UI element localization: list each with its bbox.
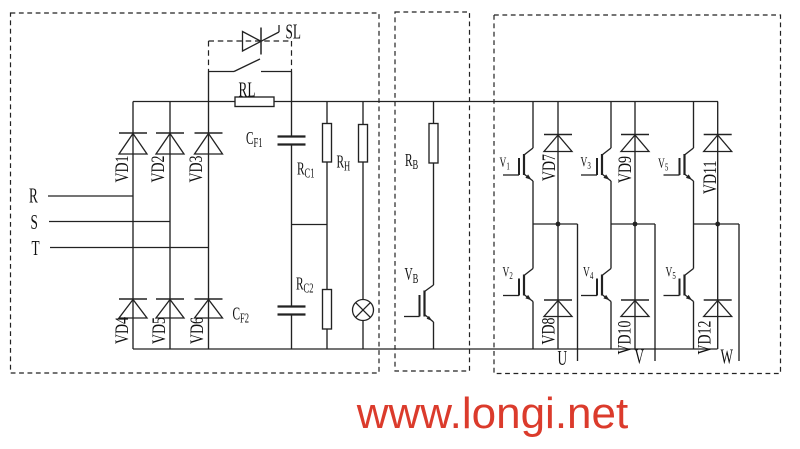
label V <box>635 344 645 368</box>
wire lamp bottom lead <box>362 321 364 350</box>
watermark www.longi.net <box>356 389 628 438</box>
label VD11 <box>699 161 720 194</box>
svg-text:VD1: VD1 <box>111 156 132 183</box>
resistor RC2 <box>323 290 332 330</box>
svg-text:RL: RL <box>239 77 256 101</box>
thyristor SL <box>243 25 280 55</box>
label S <box>31 210 38 234</box>
node phase junction U <box>556 222 561 227</box>
label V5 (lower) <box>666 263 677 281</box>
label V4 (lower) <box>583 263 594 281</box>
wire output phase W <box>738 224 740 361</box>
label VD6 <box>186 317 207 344</box>
svg-text:V3: V3 <box>581 153 592 171</box>
diode VD5 <box>156 299 184 318</box>
diode VD6 <box>195 299 223 318</box>
wire V5 collector from phase rail <box>693 224 695 269</box>
svg-text:V2: V2 <box>503 263 514 281</box>
resistor RL <box>235 97 274 107</box>
wire input R <box>48 195 133 197</box>
resistor RB <box>429 124 438 164</box>
svg-text:CF1: CF1 <box>246 130 263 151</box>
svg-text:CF2: CF2 <box>233 305 250 326</box>
dashed enclosure box (rectifier/DC-link unit) <box>11 13 380 373</box>
svg-text:RC2: RC2 <box>296 275 314 296</box>
wire output phase U <box>577 224 579 361</box>
svg-text:VD9: VD9 <box>614 156 635 183</box>
wire V5 emitter to DC- bus <box>693 302 695 350</box>
svg-text:W: W <box>721 344 734 368</box>
svg-text:V5: V5 <box>666 263 677 281</box>
wire diode VD11 branch <box>717 102 719 225</box>
wire switch left riser <box>208 72 210 102</box>
label CF2 <box>233 305 250 326</box>
svg-text:VD6: VD6 <box>186 317 207 344</box>
svg-text:S: S <box>31 210 38 234</box>
label VD9 <box>614 156 635 183</box>
label R <box>29 183 38 207</box>
svg-text:V: V <box>635 344 645 368</box>
label T <box>32 236 40 260</box>
diode VD3 <box>195 133 223 154</box>
svg-text:VD3: VD3 <box>185 156 206 183</box>
label W <box>721 344 734 368</box>
wire RB top lead <box>433 102 435 124</box>
svg-text:VD2: VD2 <box>147 156 168 183</box>
diode VD11 <box>704 135 732 152</box>
transistor V3 (upper IGBT leg 2) <box>581 148 611 181</box>
wire top bus left of RL <box>133 101 235 103</box>
svg-text:RB: RB <box>405 152 418 173</box>
label RC1 <box>297 160 314 181</box>
wire switch right riser <box>291 72 293 102</box>
label RH <box>337 153 351 174</box>
capacitor CF1 <box>278 137 306 145</box>
svg-text:www.longi.net: www.longi.net <box>356 389 628 438</box>
wire VB emitter lead <box>433 322 435 349</box>
wire top bus (DC+ rail) <box>274 101 718 103</box>
diode VD8 <box>544 300 572 317</box>
label U <box>558 346 568 370</box>
label VD4 <box>111 317 132 344</box>
resistor RH <box>359 125 368 163</box>
svg-text:VD5: VD5 <box>148 317 169 344</box>
transistor V2 (lower IGBT leg 1) <box>503 269 533 302</box>
label VD10 <box>614 321 635 355</box>
wire V4 emitter to DC- bus <box>610 302 612 350</box>
label VD5 <box>148 317 169 344</box>
diode VD7 <box>544 135 572 152</box>
wire diode VD8 branch <box>557 224 559 349</box>
wire bottom bus (DC- rail) <box>133 348 718 350</box>
diode VD4 <box>119 299 147 318</box>
transistor V5 (lower IGBT leg 3) <box>664 269 694 302</box>
svg-text:RH: RH <box>337 153 351 174</box>
wire V1 emitter to phase rail <box>532 181 534 224</box>
wire rectifier leg 2 (VD2/VD5) <box>169 102 171 350</box>
label RC2 <box>296 275 314 296</box>
transistor V1 (upper IGBT leg 1) <box>503 148 533 181</box>
wire rectifier leg 1 (VD1/VD4) <box>132 102 134 350</box>
wire V3 collector from DC+ bus <box>610 102 612 149</box>
wire V5 collector from DC+ bus <box>693 102 695 149</box>
wire V5 emitter to phase rail <box>693 181 695 224</box>
svg-text:VB: VB <box>405 265 419 286</box>
svg-text:VD7: VD7 <box>538 154 559 181</box>
wire diode VD9 branch <box>634 102 636 225</box>
transistor V4 (lower IGBT leg 2) <box>581 269 611 302</box>
label VD8 <box>538 318 559 345</box>
label V3 (upper) <box>581 153 592 171</box>
resistor RC1 <box>323 124 332 163</box>
node phase junction W <box>715 222 720 227</box>
wire CF1 to midpoint <box>291 145 293 225</box>
label SL <box>286 19 301 43</box>
svg-text:T: T <box>32 236 40 260</box>
wire V2 collector from phase rail <box>532 224 534 269</box>
capacitor CF2 <box>278 307 306 315</box>
label V1 (upper) <box>500 154 511 172</box>
transistor V5 (upper IGBT leg 3) <box>664 148 694 181</box>
label VD2 <box>147 156 168 183</box>
dashed outline of bypass contactor SL <box>209 41 292 72</box>
label V2 (lower) <box>503 263 514 281</box>
svg-text:RC1: RC1 <box>297 160 314 181</box>
indicator lamp HL <box>353 300 374 321</box>
label RL <box>239 77 256 101</box>
wire phase rail leg 3 <box>694 223 740 225</box>
wire RC1 bottom lead <box>326 162 328 225</box>
label VD1 <box>111 156 132 183</box>
diode VD1 <box>119 133 147 154</box>
label VD7 <box>538 154 559 181</box>
svg-text:U: U <box>558 346 568 370</box>
svg-text:VD4: VD4 <box>111 317 132 344</box>
svg-text:V1: V1 <box>500 154 511 172</box>
node phase junction V <box>633 222 638 227</box>
wire phase rail leg 1 <box>533 223 578 225</box>
diode VD10 <box>621 300 649 317</box>
svg-text:SL: SL <box>286 19 301 43</box>
wire RH to lamp <box>362 162 364 300</box>
label VD12 <box>694 321 715 355</box>
wire RB to VB collector <box>433 163 435 285</box>
svg-text:R: R <box>29 183 38 207</box>
svg-text:VD8: VD8 <box>538 318 559 345</box>
transistor VB <box>404 285 434 322</box>
wire V3 emitter to phase rail <box>610 181 612 224</box>
dashed enclosure box (inverter unit) <box>494 15 781 374</box>
wire V1 collector from DC+ bus <box>532 102 534 149</box>
wire rectifier leg 3 (VD3/VD6) <box>208 102 210 350</box>
wire midpoint junction <box>292 224 328 226</box>
wire phase rail leg 2 <box>611 223 655 225</box>
wire RC1 top lead <box>326 102 328 124</box>
wire RC2 bottom lead <box>326 329 328 349</box>
svg-text:VD12: VD12 <box>694 321 715 355</box>
label VB <box>405 265 419 286</box>
wire RH top lead <box>362 102 364 125</box>
wire output phase V <box>654 224 656 361</box>
svg-text:V4: V4 <box>583 263 594 281</box>
label CF1 <box>246 130 263 151</box>
label VD3 <box>185 156 206 183</box>
wire CF1 top lead <box>291 102 293 137</box>
label V5 (upper) <box>658 155 669 173</box>
wire midpoint to CF2 <box>291 225 293 307</box>
relay contact switch <box>209 59 292 72</box>
wire diode VD10 branch <box>634 224 636 349</box>
wire RC2 top lead <box>326 225 328 290</box>
wire input S <box>49 221 170 223</box>
dashed enclosure box (braking unit) <box>395 12 470 371</box>
wire diode VD12 branch <box>717 224 719 349</box>
svg-text:VD11: VD11 <box>699 161 720 194</box>
wire input T <box>50 247 209 249</box>
diode VD9 <box>621 135 649 152</box>
wire V4 collector from phase rail <box>610 224 612 269</box>
diode VD12 <box>704 300 732 317</box>
svg-text:VD10: VD10 <box>614 321 635 355</box>
wire CF2 bottom lead <box>291 315 293 350</box>
svg-text:V5: V5 <box>658 155 669 173</box>
wire V2 emitter to DC- bus <box>532 302 534 350</box>
wire diode VD7 branch <box>557 102 559 225</box>
diode VD2 <box>156 133 184 154</box>
label RB <box>405 152 418 173</box>
